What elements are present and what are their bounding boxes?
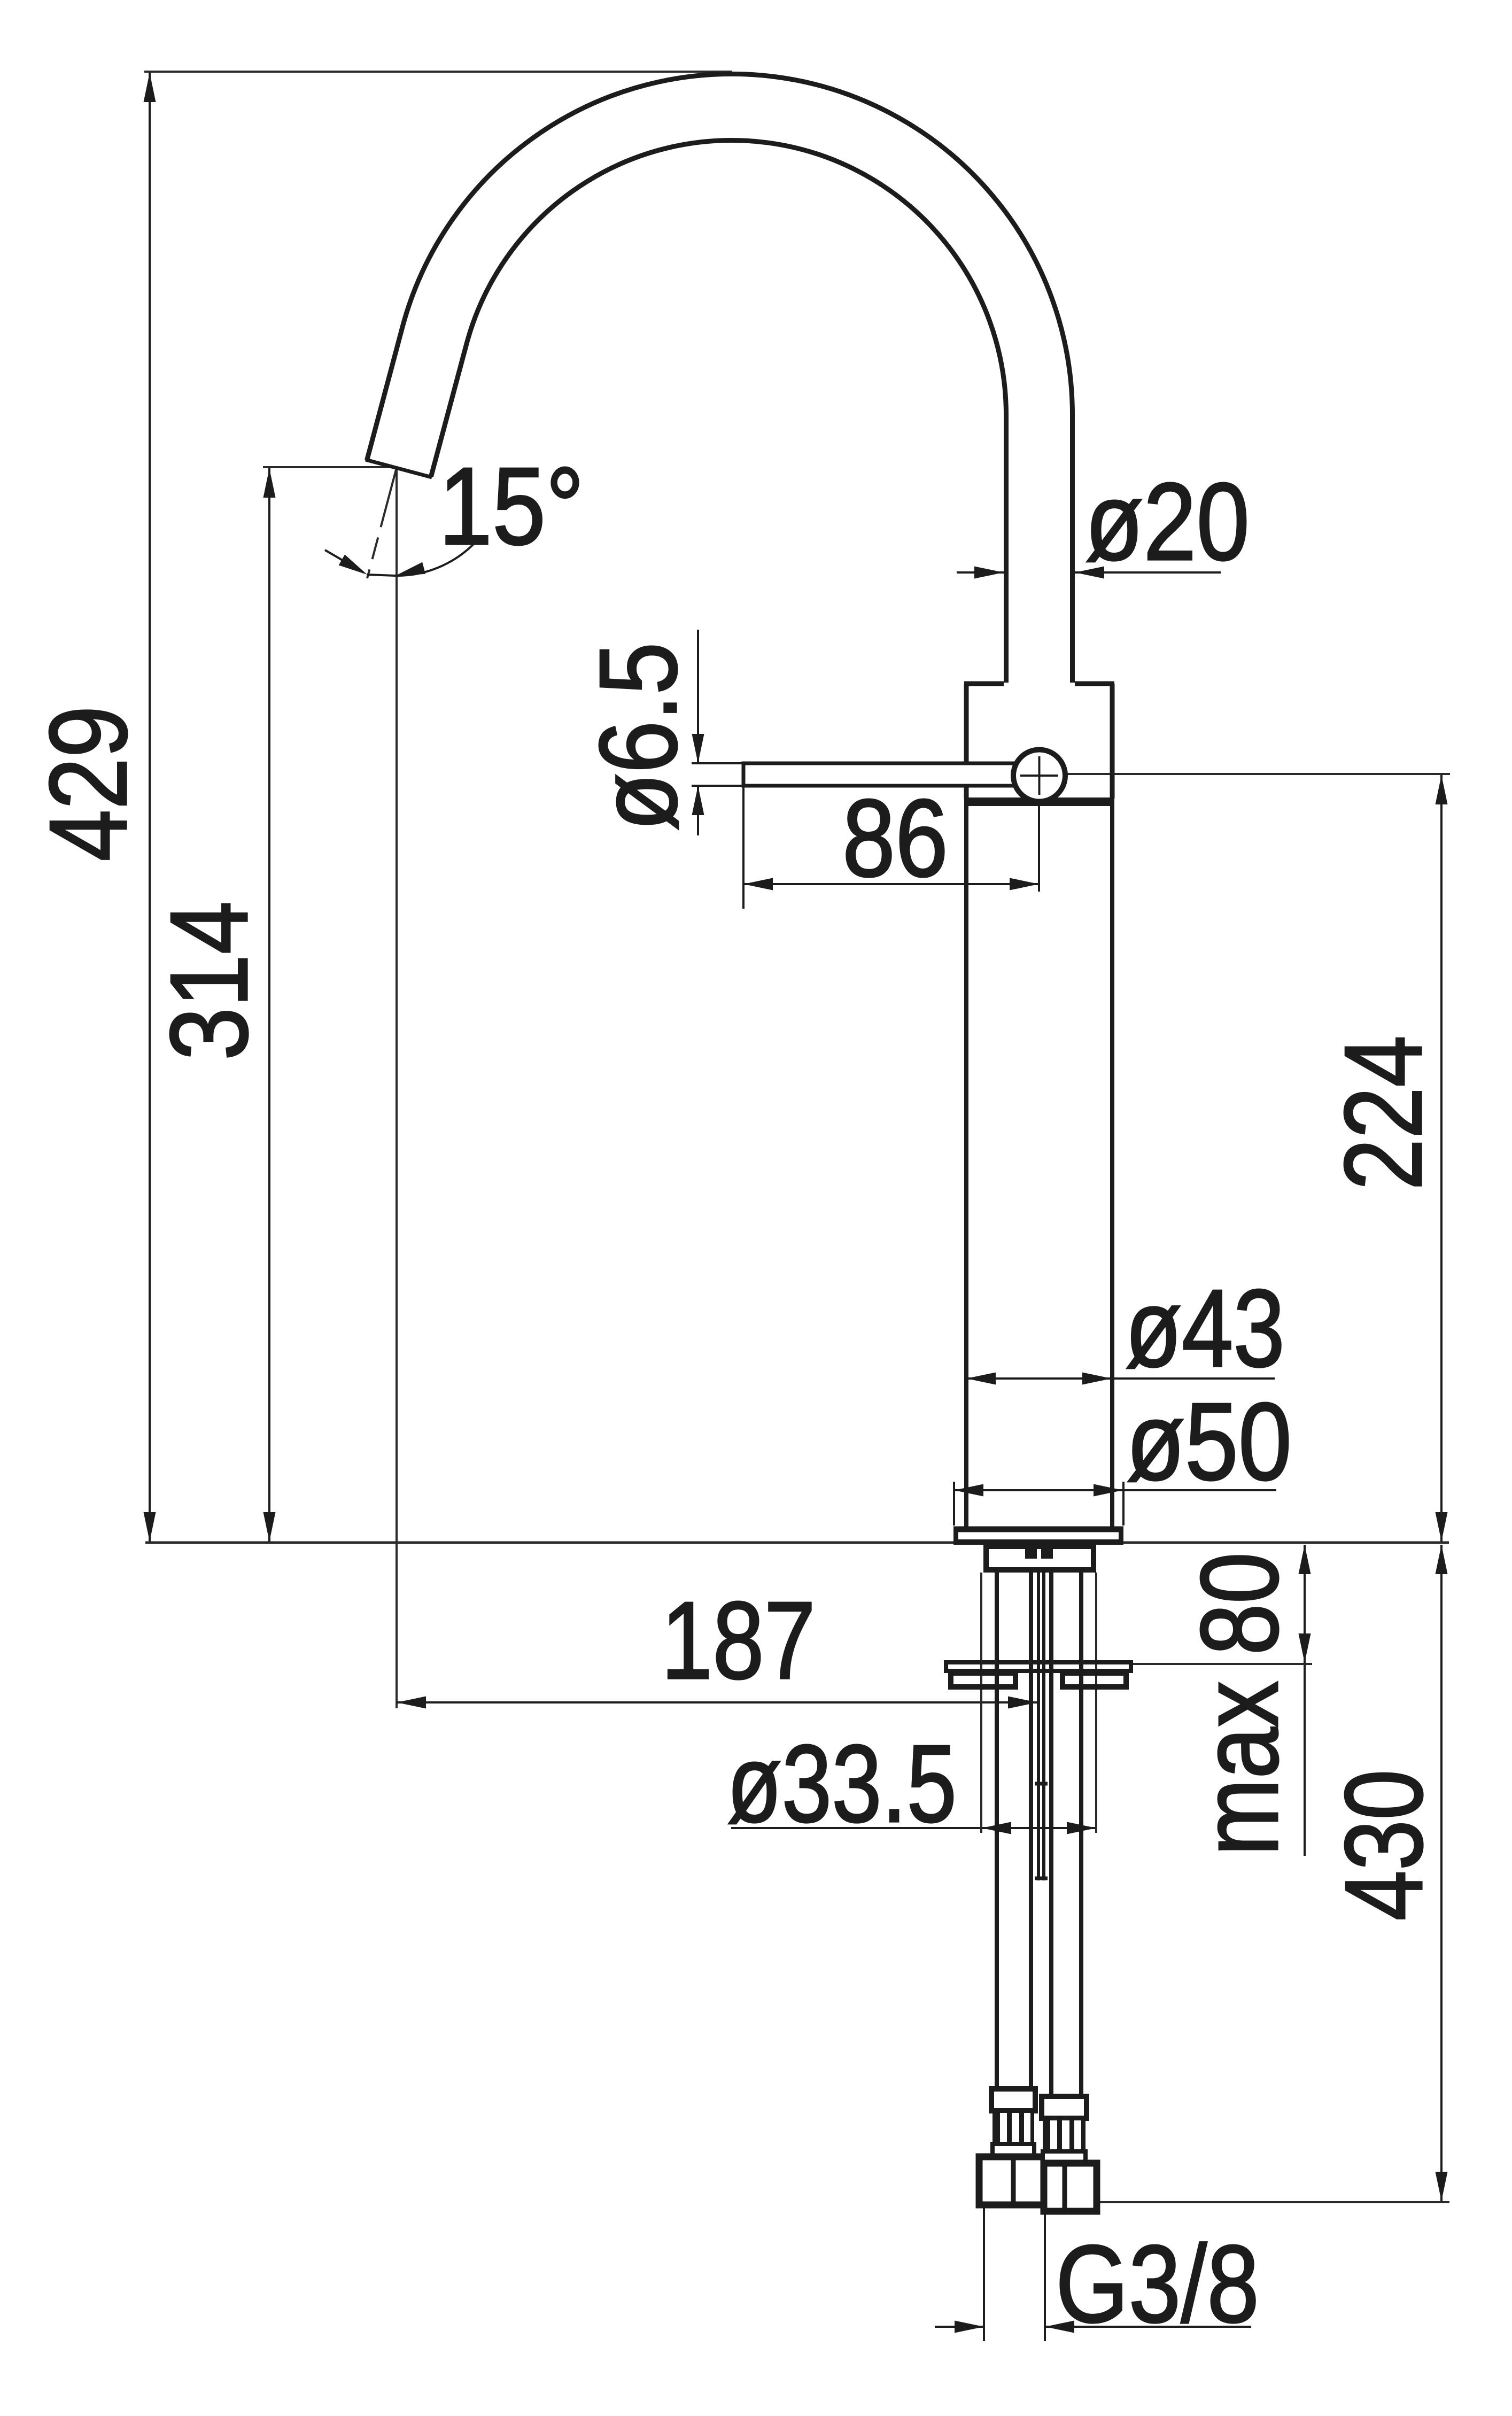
svg-text:ø33.5: ø33.5 (727, 1722, 957, 1845)
spout end face (366, 460, 432, 477)
dimension 187 (397, 1579, 1038, 1713)
shank notches (1025, 1545, 1037, 1559)
dimension o50 (954, 1380, 1292, 1526)
svg-text:ø20: ø20 (1085, 460, 1250, 583)
wire: spout tip extension line (314 level) (263, 466, 397, 468)
pivot cross (1020, 775, 1058, 777)
svg-text:ø43: ø43 (1125, 1267, 1285, 1390)
dimension 314 (148, 468, 276, 1542)
threaded fixing stud (1037, 1573, 1040, 1880)
left G3/8 hex nut (979, 2157, 1045, 2205)
spout pipe right wall (1070, 415, 1075, 683)
horseshoe washer plate (946, 1662, 1131, 1671)
base flange (953, 1527, 1123, 1532)
wire: pivot extension line to 224 dimension (1066, 773, 1450, 775)
faucet head body (964, 684, 1114, 799)
left supply hose (995, 1573, 999, 2089)
svg-text:ø50: ø50 (1126, 1380, 1292, 1503)
wire: counter/mounting surface line (145, 1542, 1449, 1544)
handle lever bar (743, 763, 1045, 786)
wire: washer plate extension line (1131, 1663, 1312, 1665)
right hose lower band (1043, 2151, 1085, 2164)
left hose ribbed section (993, 2111, 1034, 2144)
washer nut block left (951, 1673, 1015, 1687)
left hose crimp collar (991, 2089, 1035, 2111)
svg-text:G3/8: G3/8 (1056, 2223, 1259, 2345)
faucet body column (964, 806, 968, 1528)
dimension 86 (743, 777, 1039, 909)
wire: bottom extension line (430 level) (1097, 2201, 1449, 2203)
spout inner curve (431, 141, 1006, 477)
right G3/8 hex nut (1044, 2163, 1097, 2211)
dimension 430 (1322, 1545, 1448, 2201)
right supply hose (1049, 1573, 1053, 2096)
svg-text:86: 86 (842, 777, 948, 900)
svg-text:15°: 15° (439, 445, 584, 568)
dimension o33.5 (727, 1722, 1096, 1845)
wire: slanted 15 degree centerline (367, 468, 397, 578)
dimension o43 (966, 1267, 1285, 1390)
wire: vertical reference line from spout tip down to 187 dimension (396, 468, 398, 1708)
left hose lower band (993, 2144, 1034, 2157)
svg-text:224: 224 (1322, 1035, 1445, 1190)
mounting shank (986, 1546, 1094, 1570)
dimension 429 (27, 73, 156, 1542)
dimension G3/8 (935, 2206, 1259, 2345)
dimension 15 degrees: leader arrow left (325, 445, 584, 582)
svg-text:430: 430 (1322, 1770, 1445, 1921)
dimension o20 (957, 460, 1250, 583)
spout pipe left wall (1004, 415, 1009, 683)
dimension 224 (1322, 775, 1448, 1542)
svg-text:314: 314 (148, 901, 270, 1060)
right hose ribbed section (1043, 2118, 1085, 2151)
svg-text:187: 187 (661, 1579, 816, 1702)
washer nut block right (1063, 1673, 1126, 1687)
dimension max 80 (1178, 1545, 1311, 1856)
svg-text:max 80: max 80 (1178, 1552, 1301, 1856)
right hose crimp collar (1042, 2096, 1087, 2118)
handle pivot ball (1013, 750, 1065, 802)
svg-text:429: 429 (27, 706, 150, 862)
dimension o6.5 (577, 630, 742, 835)
svg-text:ø6.5: ø6.5 (577, 642, 700, 831)
head bottom dark band (964, 797, 1114, 806)
o33.5 extension lines / shank edge lines (980, 1573, 982, 1833)
wire: top extension line (429 level) (144, 71, 732, 73)
spout outer curve (367, 74, 1073, 460)
